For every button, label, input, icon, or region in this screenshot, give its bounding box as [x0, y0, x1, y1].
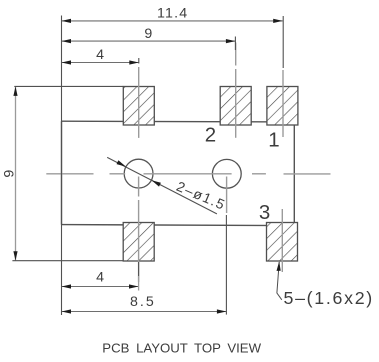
centerline of pad P4 — [138, 67, 140, 138]
extension line pad P5 center bottom — [138, 262, 140, 276]
dimension 9 top — [62, 40, 236, 42]
body bottom edge — [61, 225, 294, 226]
centerline of pad 3 — [281, 209, 283, 272]
extension line pad P4 center — [138, 58, 140, 64]
dimension 9 left vertical — [15, 86, 17, 260]
extension line pad1 center top — [282, 16, 284, 68]
centerline of hole H1 and pad P5 — [138, 177, 140, 197]
hole H2 (right, 1.5 dia) — [212, 159, 241, 188]
horizontal centerline through holes — [46, 173, 330, 175]
extension line hole H2 center bottom — [225, 215, 227, 315]
pad P5 bottom-left — [123, 223, 154, 262]
leader 2-dia1.5 — [107, 157, 217, 214]
dimension 8.5 bottom — [62, 311, 227, 313]
centerline of pad 1 — [282, 70, 284, 137]
svg-text:3: 3 — [259, 201, 270, 224]
svg-text:2: 2 — [205, 124, 216, 147]
pad P4 top-left — [123, 87, 154, 126]
extension line pad2 center top — [234, 37, 236, 51]
svg-text:8.5: 8.5 — [130, 294, 156, 310]
body right edge — [293, 122, 295, 226]
pad 1 top-right — [267, 87, 298, 126]
dimension 4 top — [62, 62, 139, 64]
svg-text:9: 9 — [144, 26, 152, 42]
pad 3 bottom-right — [267, 223, 298, 262]
centerline of pad 2 — [235, 43, 237, 66]
leader 5-(1.6x2) — [277, 262, 282, 300]
extension line top of pads — [14, 85, 123, 87]
body top edge — [61, 120, 294, 123]
dimension 11.4 — [62, 20, 283, 22]
svg-text:4: 4 — [96, 47, 104, 63]
dimension 4 bottom — [62, 286, 139, 288]
PCB body outline — [61, 121, 294, 225]
hole H1 (left, 1.5 dia) — [124, 159, 153, 188]
svg-text:5–(1.6x2): 5–(1.6x2) — [284, 288, 374, 308]
extension line left (x=61.5) — [61, 16, 63, 316]
svg-text:4: 4 — [96, 269, 104, 285]
svg-text:9: 9 — [1, 170, 17, 178]
centerline of hole H2 — [226, 177, 228, 214]
extension line bottom of pads — [12, 260, 123, 262]
svg-text:11.4: 11.4 — [157, 6, 188, 22]
svg-text:PCB LAYOUT TOP VIEW: PCB LAYOUT TOP VIEW — [102, 341, 261, 356]
svg-text:1: 1 — [268, 128, 279, 151]
body left edge — [61, 121, 63, 224]
pad 2 top-middle — [220, 87, 251, 126]
